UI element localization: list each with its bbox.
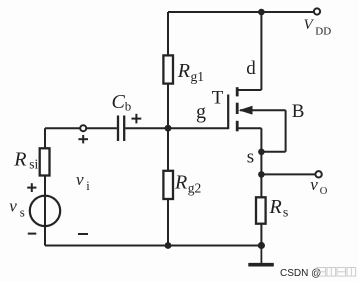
terminal VDD open circle	[314, 8, 320, 14]
polarity - below vs	[28, 233, 37, 235]
wire: body return vertical	[285, 110, 287, 152]
node: bottom rail ground junction	[258, 242, 265, 249]
svg-text:R: R	[174, 172, 187, 194]
svg-text:si: si	[29, 157, 38, 172]
wire: top rail from Rg1 branch to VDD terminal	[168, 11, 314, 13]
svg-text:v: v	[310, 175, 318, 194]
wire: input left segment to terminal	[45, 127, 80, 129]
wire: output node to vo terminal	[261, 173, 315, 175]
svg-text:B: B	[292, 101, 305, 122]
wire: node s to output node	[260, 152, 262, 175]
node: top rail drain junction	[258, 9, 265, 16]
wire: drain vertical to top rail	[260, 12, 262, 90]
svg-text:V: V	[304, 17, 315, 33]
svg-text:DD: DD	[315, 26, 331, 38]
wire: gate node to Rg2 top	[167, 128, 169, 171]
svg-text:b: b	[125, 98, 132, 113]
wire: source branch left vertical through vs	[44, 128, 46, 148]
wire: capacitor Cb right plate to gate node	[125, 127, 168, 129]
node: bottom rail Rg2 junction	[165, 242, 172, 249]
wire: Rg1 bottom to gate node	[167, 84, 169, 129]
source vs circle	[30, 196, 60, 226]
wire: source lead horizontal	[238, 127, 261, 129]
svg-text:g: g	[196, 101, 206, 123]
wire: terminal to capacitor Cb left plate	[86, 127, 117, 129]
ground	[248, 246, 273, 265]
svg-text:O: O	[320, 186, 328, 197]
svg-text:v: v	[76, 170, 84, 189]
wire: Rg1 branch top	[167, 12, 169, 55]
wire: gate node to gate bar (gate lead)	[168, 127, 228, 129]
svg-text:C: C	[112, 91, 126, 113]
polarity + above vs	[27, 183, 36, 192]
transistor T: channel dash middle (body)	[236, 103, 239, 114]
resistor Rs	[256, 197, 266, 223]
transistor T: channel dash bottom (source)	[236, 121, 239, 132]
terminal: input open circle	[80, 125, 86, 131]
transistor T: gate bar	[227, 95, 229, 130]
wire: drain lead horizontal	[238, 89, 261, 91]
wire: Rs bottom to bottom rail	[260, 224, 262, 246]
wire: Rg2 bottom to bottom rail	[167, 199, 169, 246]
transistor T: channel dash top (drain)	[236, 87, 239, 96]
wire: source lead vertical to node s	[260, 128, 262, 152]
svg-text:R: R	[13, 149, 26, 171]
svg-text:g1: g1	[191, 69, 205, 84]
wire: body line horizontal from arrow to B corner	[240, 109, 286, 111]
wire: bottom rail	[45, 245, 261, 247]
capacitor Cb	[118, 116, 124, 142]
svg-text:d: d	[246, 58, 256, 79]
resistor Rg1	[163, 55, 173, 83]
svg-text:i: i	[86, 179, 90, 193]
resistor Rg2	[163, 171, 173, 199]
transistor T: body arrow	[239, 106, 253, 115]
node: output junction	[258, 171, 265, 178]
polarity + below input terminal	[78, 135, 88, 143]
resistor Rsi	[40, 148, 50, 175]
watermark CSDN	[280, 268, 321, 279]
wire: output node to Rs top	[260, 174, 262, 197]
svg-text:s: s	[283, 206, 288, 221]
polarity - for vi	[78, 233, 88, 235]
node: gate input junction	[165, 125, 172, 132]
wire: body return horizontal to node s	[261, 151, 285, 153]
wire: Rsi bottom into source vs and to bottom rail	[44, 176, 46, 246]
svg-text:R: R	[269, 196, 282, 218]
svg-text:T: T	[212, 88, 224, 109]
node: s junction	[258, 149, 265, 156]
svg-text:CSDN @: CSDN @	[280, 268, 321, 279]
svg-text:g2: g2	[188, 181, 202, 196]
svg-text:R: R	[177, 60, 190, 82]
svg-text:s: s	[20, 205, 25, 220]
polarity + right of Cb	[132, 114, 142, 124]
svg-text:s: s	[247, 146, 254, 167]
svg-text:v: v	[9, 196, 17, 215]
terminal vo open circle	[315, 171, 321, 177]
